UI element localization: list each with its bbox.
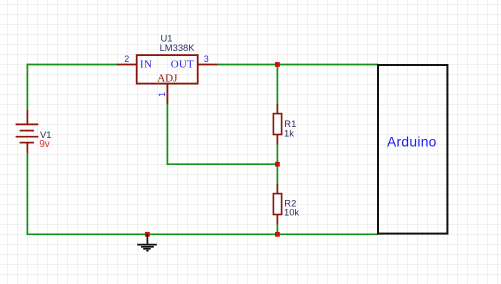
svg-text:1k: 1k [284, 127, 294, 138]
svg-text:LM338K: LM338K [160, 42, 196, 53]
wire R1 bottom to mid node [276, 144, 278, 184]
node junction bottom R2 [275, 232, 280, 237]
svg-text:9v: 9v [39, 139, 50, 150]
svg-text:10k: 10k [284, 207, 299, 218]
wire left vertical (top rail to battery) [26, 64, 28, 110]
Arduino block [378, 65, 447, 234]
battery V1 [16, 110, 39, 153]
svg-text:IN: IN [140, 58, 153, 70]
resistor R1 [273, 104, 281, 144]
wire ADJ down [166, 104, 168, 165]
wire ADJ to mid node [167, 163, 278, 165]
svg-text:2: 2 [124, 54, 129, 64]
regulator U1 LM338K body [137, 55, 198, 84]
wire OUT to Arduino (through node) [218, 64, 379, 66]
ground [137, 234, 157, 250]
svg-text:ADJ: ADJ [157, 73, 178, 85]
node junction VOUT rail [275, 62, 280, 67]
wire top rail left (battery + to IN) [27, 64, 117, 66]
svg-text:3: 3 [204, 54, 209, 64]
resistor R2 [273, 184, 281, 224]
wire bottom rail [27, 233, 378, 235]
svg-text:OUT: OUT [171, 58, 194, 70]
pin 2 (IN) [117, 64, 137, 66]
node junction mid divider [275, 162, 280, 167]
svg-text:Arduino: Arduino [387, 134, 437, 149]
node junction ground [145, 232, 150, 237]
pin 1 (ADJ) [166, 84, 168, 104]
wire R2 bottom to bottom rail [276, 224, 278, 235]
pin 3 (OUT) [198, 64, 218, 66]
svg-text:1: 1 [157, 92, 167, 97]
wire node to R1 top [276, 65, 278, 105]
wire battery minus to bottom rail [26, 153, 28, 235]
